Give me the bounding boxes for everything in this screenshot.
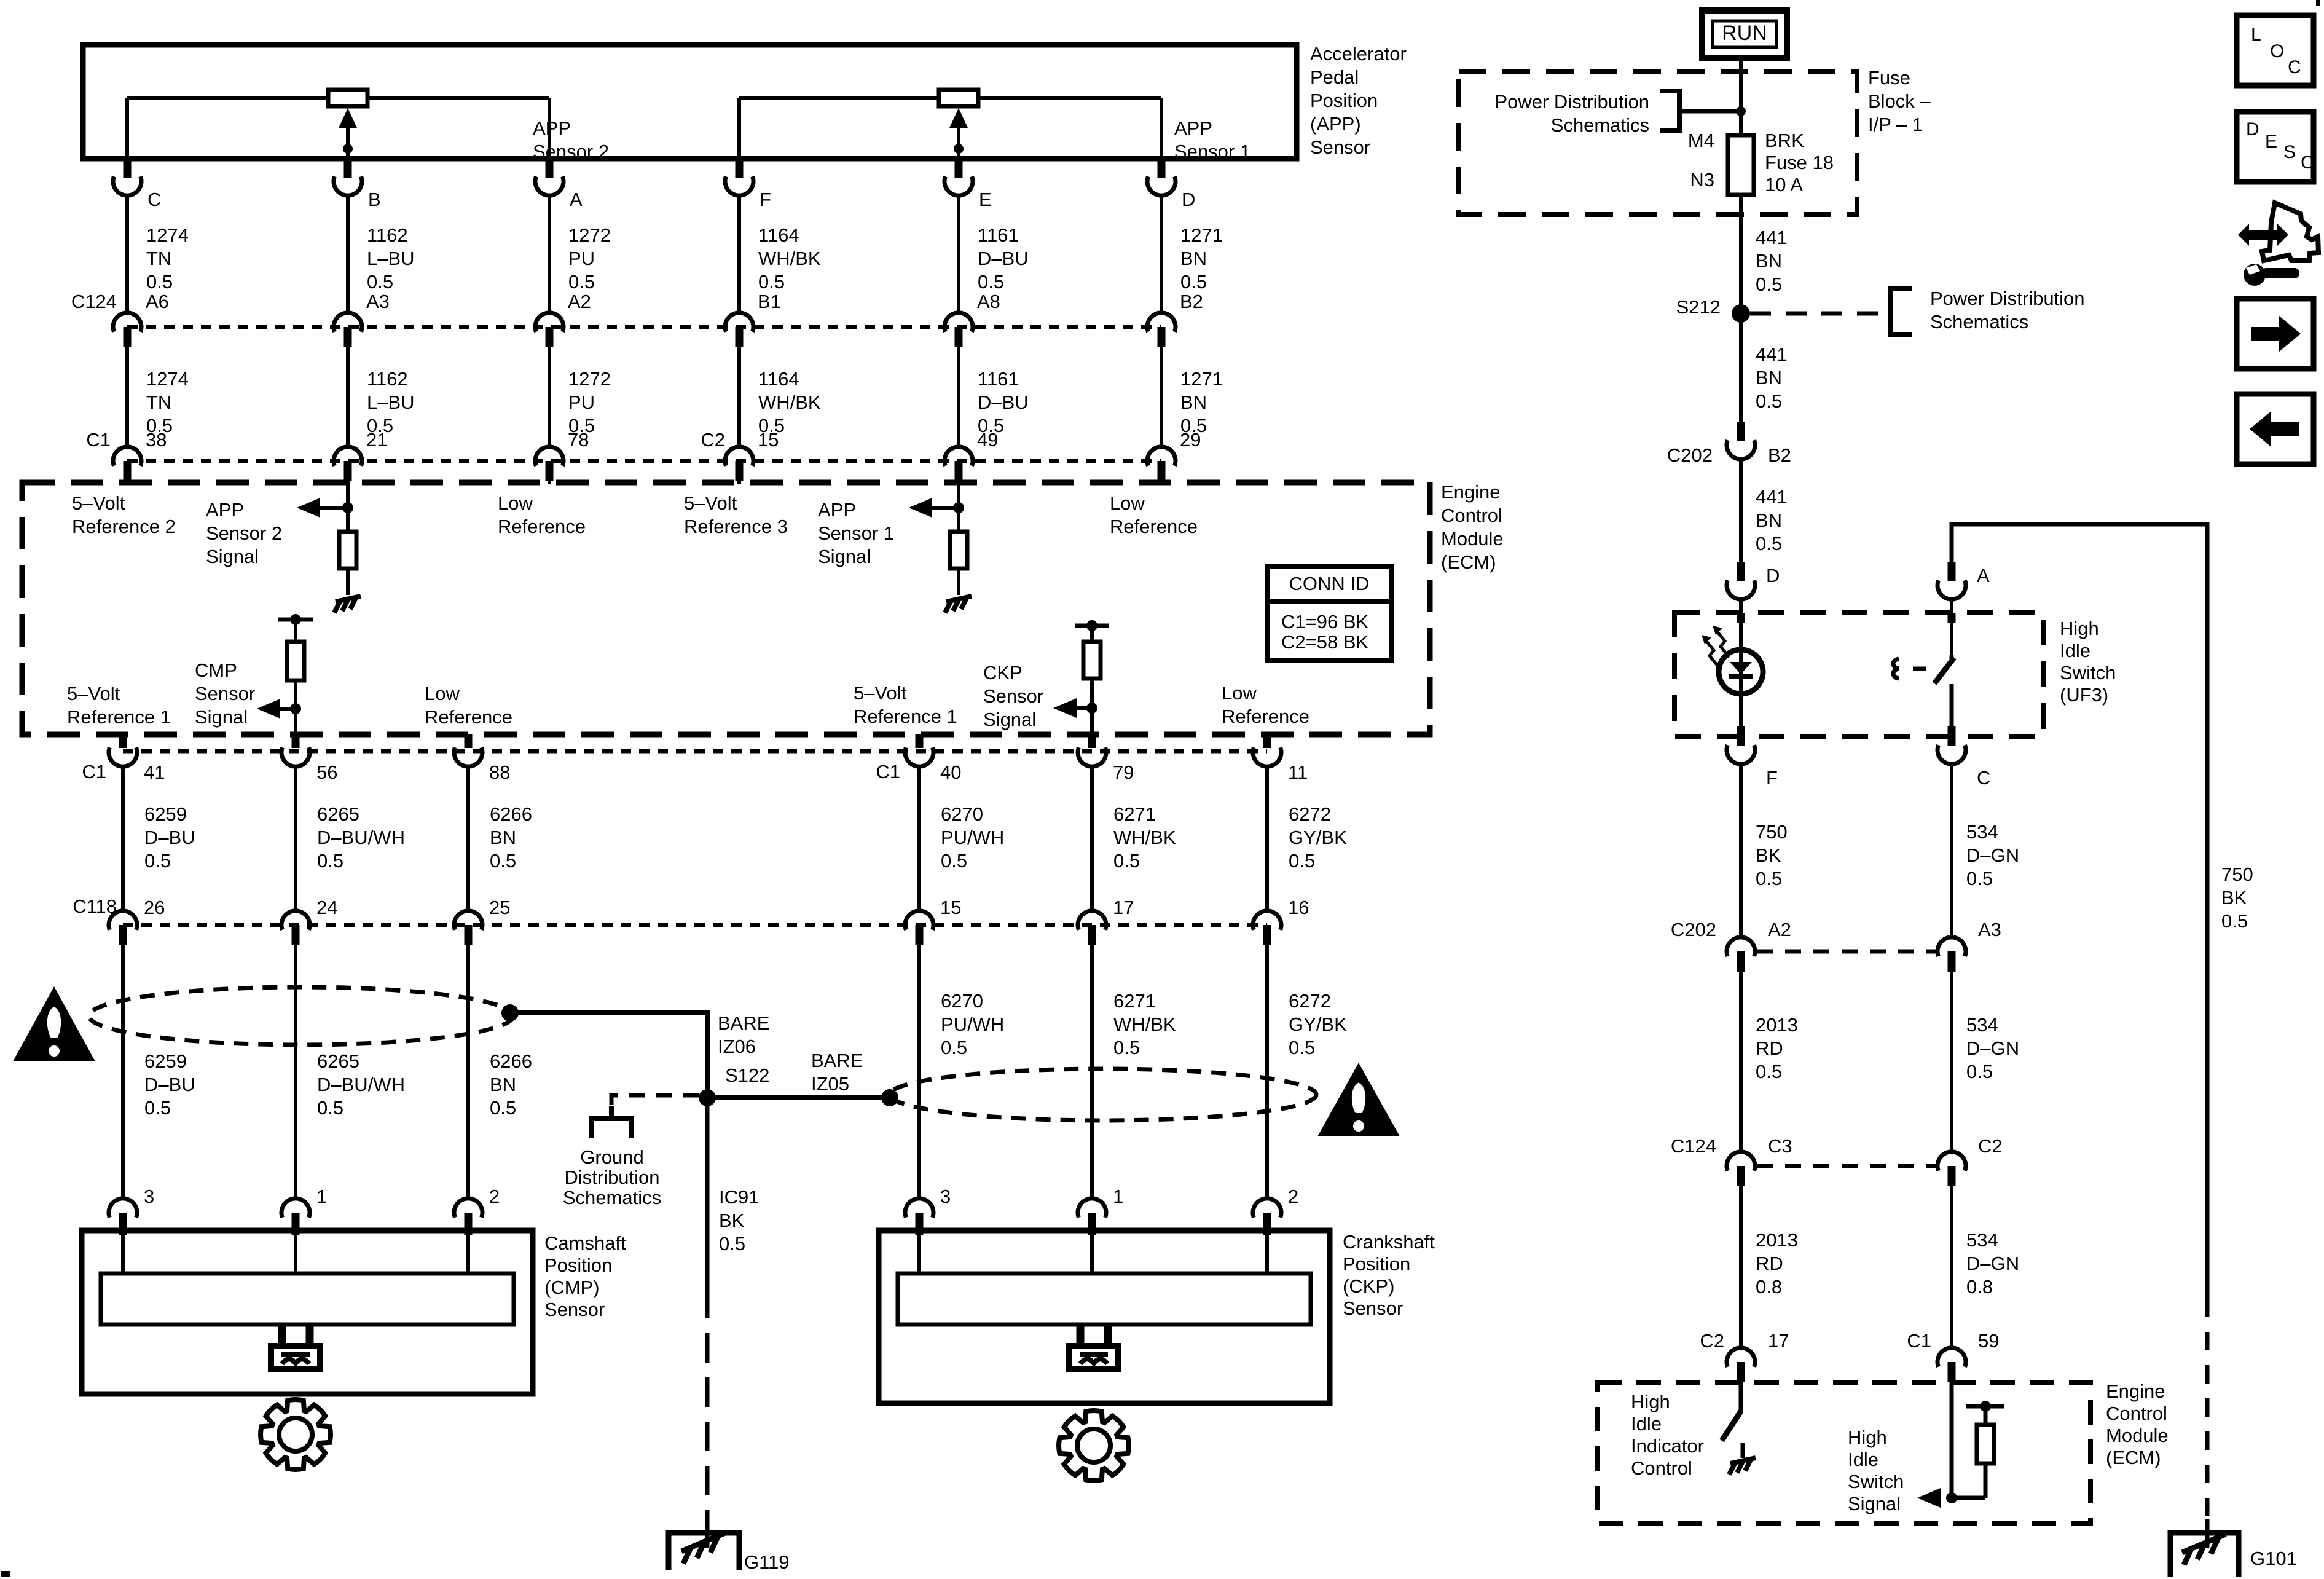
- svg-text:0.5: 0.5: [1756, 1061, 1782, 1082]
- ECM Low Reference label (CKP): [1222, 682, 1309, 727]
- svg-text:D–GN: D–GN: [1966, 1038, 2019, 1059]
- pin label 26: [144, 897, 165, 918]
- svg-text:2: 2: [489, 1186, 500, 1207]
- wire: [346, 195, 350, 313]
- connector A: [1937, 562, 1966, 599]
- ECM output pin 79: [1078, 734, 1106, 766]
- CKP element leads: [919, 1235, 1267, 1274]
- svg-text:D: D: [1766, 565, 1780, 586]
- svg-text:C1: C1: [1907, 1330, 1931, 1352]
- svg-text:1272: 1272: [568, 224, 611, 246]
- wire label 6271 WH/BK: [1113, 990, 1176, 1058]
- svg-text:WH/BK: WH/BK: [758, 392, 821, 413]
- svg-text:PU/WH: PU/WH: [941, 1014, 1004, 1035]
- wire: [548, 195, 551, 313]
- ECM label (bottom): [2106, 1380, 2169, 1468]
- wire: [1090, 945, 1094, 1199]
- svg-text:6265: 6265: [317, 1050, 359, 1072]
- Fuse Block dashed box: [1459, 71, 1857, 215]
- pin label 59: [1978, 1330, 1999, 1352]
- svg-text:C1: C1: [876, 761, 900, 782]
- fuse BRK Fuse 18 10A: [1728, 111, 1754, 310]
- ground distribution dashed wire: [611, 1095, 699, 1115]
- Crankshaft Position (CKP) Sensor label: [1343, 1231, 1435, 1319]
- S212 dashed tie: [1750, 312, 1886, 316]
- wire label 6272 GY/BK: [1289, 803, 1347, 872]
- svg-text:Reference 2: Reference 2: [72, 516, 176, 537]
- pin label C: [1977, 767, 1990, 789]
- APP Sensor box label: [1310, 43, 1407, 158]
- wire: [294, 680, 297, 733]
- pin label A8: [977, 291, 1000, 312]
- svg-text:0.5: 0.5: [941, 850, 967, 872]
- CMP shield drain dot: [501, 1004, 519, 1022]
- ECM 5-Volt Reference 2 label: [72, 492, 176, 537]
- ECM pin 17: [1727, 1348, 1755, 1382]
- svg-text:(UF3): (UF3): [2060, 684, 2108, 706]
- svg-text:Control: Control: [2106, 1403, 2167, 1424]
- ECM pull-up resistor (APP2): [339, 532, 356, 569]
- svg-text:3: 3: [940, 1186, 951, 1207]
- svg-text:Power Distribution: Power Distribution: [1930, 288, 2085, 309]
- svg-text:E: E: [979, 189, 992, 210]
- svg-text:G101: G101: [2250, 1548, 2297, 1569]
- svg-text:Sensor 2: Sensor 2: [206, 522, 282, 544]
- connector C1 label: [86, 429, 111, 451]
- connector pin 38: [113, 447, 141, 481]
- svg-text:5–Volt: 5–Volt: [72, 492, 125, 514]
- wire: [125, 347, 129, 447]
- pin label A: [1977, 565, 1990, 586]
- pin label F: [1766, 767, 1778, 789]
- wire: [121, 766, 125, 911]
- svg-text:RUN: RUN: [1722, 22, 1767, 45]
- wire: [125, 195, 129, 313]
- G119 label: [744, 1551, 790, 1573]
- CMP signal arrow: [257, 699, 301, 719]
- pin label 56: [316, 762, 337, 783]
- wire: [1090, 766, 1094, 911]
- svg-text:BK: BK: [1756, 845, 1781, 866]
- LOC letters: [2251, 25, 2301, 77]
- svg-text:(ECM): (ECM): [1441, 551, 1496, 573]
- svg-text:S: S: [2283, 142, 2296, 162]
- wire: [1739, 972, 1743, 1152]
- connector C118 pin 25: [454, 911, 482, 945]
- wire: [294, 766, 297, 911]
- svg-text:BN: BN: [1180, 248, 1207, 269]
- pin label 3: [940, 1186, 951, 1207]
- svg-text:O: O: [2270, 41, 2284, 61]
- double arrow: [2238, 224, 2288, 246]
- ECM output pin 56: [281, 734, 310, 766]
- BARE IZ06 label: [718, 1012, 769, 1057]
- svg-text:0.5: 0.5: [1113, 850, 1140, 872]
- APP sensor 2 potentiometer track: [127, 98, 549, 159]
- svg-text:L–BU: L–BU: [367, 248, 415, 269]
- pin label 41: [144, 762, 165, 783]
- svg-text:L: L: [2251, 25, 2261, 45]
- svg-text:RD: RD: [1756, 1038, 1783, 1059]
- left arrow icon box: [2237, 394, 2314, 464]
- svg-text:Sensor: Sensor: [983, 685, 1043, 707]
- svg-text:0.5: 0.5: [1756, 533, 1782, 554]
- wire stub into ECM: [548, 481, 551, 484]
- ground G101: [2170, 1519, 2239, 1577]
- svg-text:21: 21: [366, 429, 387, 451]
- svg-text:Engine: Engine: [2106, 1380, 2165, 1402]
- svg-text:0.5: 0.5: [146, 271, 173, 293]
- svg-text:A8: A8: [977, 291, 1000, 312]
- LED emission arrows: [1702, 626, 1729, 666]
- svg-text:3: 3: [144, 1186, 154, 1207]
- pin label 15: [940, 897, 961, 918]
- wire: [1950, 599, 1953, 655]
- wire label 750 BK 0.5 (right): [2221, 864, 2253, 932]
- wire: [737, 195, 741, 313]
- RUN fuse box: [1702, 10, 1787, 58]
- CMP element leads: [123, 1235, 468, 1274]
- APP sensor pin D terminal: [1147, 159, 1176, 195]
- svg-text:PU/WH: PU/WH: [941, 827, 1004, 848]
- svg-text:D–BU/WH: D–BU/WH: [317, 827, 405, 848]
- svg-text:Reference 1: Reference 1: [854, 706, 957, 727]
- connector C2 label (17): [1700, 1330, 1724, 1352]
- svg-text:RD: RD: [1756, 1253, 1783, 1274]
- power distribution bracket (S212): [1891, 289, 1912, 334]
- svg-text:1: 1: [316, 1186, 327, 1207]
- wire stub into ECM: [125, 481, 129, 484]
- wire: [917, 945, 921, 1199]
- Accelerator Pedal Position (APP) Sensor box: [83, 45, 1297, 159]
- svg-text:88: 88: [489, 762, 510, 783]
- svg-text:Schematics: Schematics: [1551, 114, 1649, 136]
- pin label B2: [1768, 444, 1791, 466]
- pin label 40: [940, 762, 961, 783]
- svg-text:15: 15: [940, 897, 961, 918]
- svg-text:534: 534: [1966, 1229, 1998, 1251]
- ECM pull-up resistor (signal): [1977, 1406, 1994, 1498]
- svg-text:1161: 1161: [978, 224, 1019, 246]
- wire: [957, 195, 960, 313]
- svg-text:2: 2: [1288, 1186, 1298, 1207]
- svg-text:41: 41: [144, 762, 165, 783]
- svg-text:Accelerator: Accelerator: [1310, 43, 1407, 65]
- svg-text:0.5: 0.5: [1966, 868, 1993, 889]
- wire: [1950, 764, 1953, 937]
- wire: [957, 569, 960, 595]
- svg-text:Module: Module: [2106, 1425, 2169, 1446]
- svg-text:A3: A3: [366, 291, 390, 312]
- pin label B1: [758, 291, 781, 312]
- svg-text:Sensor 1: Sensor 1: [818, 522, 894, 544]
- svg-text:6271: 6271: [1113, 990, 1156, 1012]
- svg-text:Sensor 1: Sensor 1: [1174, 141, 1250, 162]
- pin label 1: [1113, 1186, 1123, 1207]
- Power Distribution Schematics label (fuse): [1494, 91, 1649, 136]
- svg-text:A2: A2: [1768, 919, 1791, 940]
- wire: [1160, 347, 1163, 447]
- ECM 5-Volt Reference 3 label: [684, 492, 788, 537]
- svg-text:C: C: [1977, 767, 1990, 789]
- connector C124 pin C2: [1937, 1152, 1966, 1186]
- svg-text:26: 26: [144, 897, 165, 918]
- svg-text:A3: A3: [1978, 919, 2001, 940]
- svg-text:534: 534: [1966, 1014, 1998, 1036]
- svg-text:C124: C124: [1671, 1135, 1716, 1157]
- APP sensor pin C terminal: [113, 159, 141, 195]
- pin label 88: [489, 762, 510, 783]
- svg-text:Reference 1: Reference 1: [67, 706, 171, 728]
- svg-text:11: 11: [1288, 762, 1308, 783]
- svg-text:Pedal: Pedal: [1310, 66, 1359, 88]
- CKP Sensor Signal label: [983, 662, 1043, 730]
- svg-text:Control: Control: [1441, 505, 1502, 526]
- pin label 29: [1180, 429, 1201, 451]
- svg-text:0.5: 0.5: [1756, 274, 1782, 295]
- High Idle Switch label: [2060, 618, 2116, 706]
- svg-text:534: 534: [1966, 821, 1998, 843]
- svg-text:Reference: Reference: [425, 706, 512, 728]
- APP Sensor 2 label: [533, 117, 609, 162]
- pin label 79: [1113, 762, 1134, 783]
- svg-text:Schematics: Schematics: [563, 1187, 661, 1208]
- APP sensor pin E terminal: [944, 159, 973, 195]
- CKP sensor pin 3: [905, 1199, 933, 1235]
- box entry stub (D): [1737, 613, 1745, 623]
- CMP reluctor gear: [261, 1400, 331, 1470]
- svg-text:TN: TN: [146, 248, 171, 269]
- wire label 1162 L–BU: [367, 368, 415, 436]
- Engine Control Module (ECM) dashed box (bottom): [1597, 1382, 2090, 1523]
- svg-text:59: 59: [1978, 1330, 1999, 1352]
- ground G119: [669, 1519, 739, 1570]
- svg-text:0.5: 0.5: [317, 850, 343, 872]
- svg-text:BN: BN: [1756, 510, 1782, 531]
- svg-text:Switch: Switch: [2060, 662, 2116, 683]
- ground distribution bracket: [592, 1106, 631, 1138]
- svg-text:Reference 3: Reference 3: [684, 516, 788, 537]
- wire label 1161 D–BU: [978, 368, 1029, 436]
- high idle indicator control switch: [1722, 1382, 1743, 1458]
- connector row C118 dashed line: [123, 923, 1267, 927]
- svg-text:0.5: 0.5: [1289, 1037, 1315, 1058]
- splice S212: [1732, 304, 1750, 323]
- svg-text:0.5: 0.5: [1180, 271, 1207, 293]
- svg-text:GY/BK: GY/BK: [1289, 827, 1347, 848]
- svg-text:0.5: 0.5: [941, 1037, 967, 1058]
- svg-text:C: C: [2301, 152, 2314, 173]
- right arrow icon box: [2237, 299, 2314, 369]
- wire label 1272 PU: [568, 368, 611, 436]
- svg-text:CKP: CKP: [983, 662, 1023, 683]
- svg-text:1162: 1162: [367, 368, 408, 390]
- svg-text:6265: 6265: [317, 803, 359, 825]
- svg-text:C202: C202: [1671, 919, 1716, 940]
- svg-text:Signal: Signal: [818, 546, 871, 567]
- svg-text:6266: 6266: [490, 803, 532, 825]
- svg-text:BARE: BARE: [811, 1050, 863, 1071]
- svg-text:A2: A2: [568, 291, 591, 312]
- svg-text:Reference: Reference: [498, 516, 586, 537]
- ECM resistor (CMP): [287, 642, 304, 680]
- svg-text:5–Volt: 5–Volt: [67, 683, 120, 704]
- svg-text:APP: APP: [818, 499, 856, 521]
- svg-text:IC91: IC91: [719, 1186, 759, 1208]
- svg-text:C118: C118: [73, 896, 117, 917]
- wire label 6265 D–BU/WH: [317, 1050, 405, 1119]
- APP sensor pin F terminal: [725, 159, 753, 195]
- wire: [466, 945, 470, 1199]
- wire label 1164 WH/BK: [758, 368, 821, 436]
- svg-text:C2=58 BK: C2=58 BK: [1281, 631, 1369, 653]
- CKP shield ellipse: [890, 1069, 1316, 1120]
- svg-text:BN: BN: [490, 1074, 516, 1095]
- connector C1 label (right group): [876, 761, 900, 782]
- pin label D: [1766, 565, 1780, 586]
- Fuse Block label: [1868, 67, 1931, 135]
- svg-text:A: A: [570, 189, 583, 210]
- wire: [1950, 1186, 1953, 1348]
- pin label A2: [1768, 919, 1791, 940]
- svg-text:750: 750: [1756, 821, 1788, 843]
- High Idle Switch Signal label: [1848, 1427, 1904, 1514]
- pin label C: [147, 189, 161, 210]
- connector C124 label: [71, 291, 117, 312]
- svg-text:Camshaft: Camshaft: [544, 1232, 626, 1254]
- connector pin 49: [944, 447, 973, 481]
- svg-text:Distribution: Distribution: [564, 1167, 659, 1188]
- DESC letters: [2246, 119, 2314, 173]
- page corner mark: [1, 1571, 10, 1577]
- svg-text:Indicator: Indicator: [1631, 1435, 1704, 1457]
- wire: [1739, 694, 1743, 736]
- wire stub into ECM: [737, 481, 741, 484]
- svg-text:F: F: [760, 189, 771, 210]
- svg-text:C2: C2: [701, 429, 725, 451]
- pin label C3: [1768, 1135, 1792, 1157]
- svg-text:S212: S212: [1676, 296, 1721, 318]
- connector C118 pin 17: [1078, 911, 1106, 945]
- svg-text:24: 24: [316, 897, 337, 918]
- signal junction: [1946, 1492, 1985, 1503]
- svg-text:G119: G119: [744, 1551, 790, 1573]
- wire: [1739, 764, 1743, 937]
- svg-text:Low: Low: [425, 683, 460, 704]
- svg-text:D–BU: D–BU: [978, 248, 1029, 269]
- power distribution bracket (fuse): [1660, 91, 1679, 131]
- S212 label: [1676, 296, 1721, 318]
- ECM output pin 40: [905, 734, 933, 766]
- svg-text:56: 56: [316, 762, 337, 783]
- wire stub into ECM: [957, 481, 960, 484]
- LOC icon box: [2237, 15, 2314, 85]
- wire: [1160, 195, 1163, 313]
- svg-text:E: E: [2265, 132, 2277, 152]
- C124 row dashed tie: [1757, 1164, 1936, 1168]
- pin label B2: [1180, 291, 1203, 312]
- wire label 6270 PU/WH: [941, 803, 1004, 872]
- ECM internal ground (indicator): [1729, 1458, 1756, 1475]
- svg-text:BK: BK: [719, 1210, 745, 1231]
- APP sensor 2 signal arrow: [297, 482, 353, 532]
- svg-text:0.5: 0.5: [1966, 1061, 1993, 1082]
- svg-text:N3: N3: [1690, 169, 1714, 191]
- wire label 6266 BN: [490, 803, 532, 872]
- svg-text:Signal: Signal: [983, 709, 1036, 730]
- svg-text:B2: B2: [1180, 291, 1203, 312]
- svg-text:BN: BN: [1180, 392, 1207, 413]
- pin label F: [760, 189, 771, 210]
- connector C124 pin A3: [334, 313, 362, 347]
- svg-text:79: 79: [1113, 762, 1134, 783]
- svg-text:6259: 6259: [144, 803, 187, 825]
- wire: [346, 347, 350, 447]
- CMP pickup connector: [271, 1323, 320, 1369]
- ECM internal ground (APP1): [945, 596, 972, 613]
- APP sensor 1 signal arrow: [909, 482, 964, 532]
- svg-text:10 A: 10 A: [1765, 174, 1803, 195]
- connector pin 15: [725, 447, 753, 481]
- svg-text:BK: BK: [2221, 887, 2247, 908]
- svg-text:Signal: Signal: [195, 706, 248, 728]
- svg-text:L–BU: L–BU: [367, 392, 415, 413]
- wire stub into ECM: [346, 481, 350, 484]
- svg-text:Position: Position: [1310, 90, 1378, 111]
- svg-text:WH/BK: WH/BK: [1113, 827, 1176, 848]
- svg-text:Idle: Idle: [2060, 640, 2090, 661]
- G101 label: [2250, 1548, 2297, 1569]
- svg-text:15: 15: [758, 429, 779, 451]
- connector C202 pin A2: [1727, 937, 1755, 972]
- APP sensor 2 wiper arrow: [339, 108, 357, 159]
- wire: [1739, 1186, 1743, 1348]
- wire: [121, 945, 125, 1199]
- connector pin 21: [334, 447, 362, 481]
- wire label 1271 BN: [1180, 224, 1223, 293]
- warning triangle (right): [1317, 1063, 1400, 1136]
- wire: [1739, 58, 1743, 111]
- DESC icon box: [2237, 112, 2314, 182]
- svg-text:6266: 6266: [490, 1050, 532, 1072]
- wire label 441 BN 0.5 (a): [1756, 227, 1788, 295]
- CKP signal arrow: [1053, 698, 1097, 718]
- svg-text:D–GN: D–GN: [1966, 845, 2019, 866]
- connector row C124 dashed line: [127, 325, 1161, 329]
- box exit stub (F): [1737, 726, 1745, 736]
- svg-text:WH/BK: WH/BK: [758, 248, 821, 269]
- warning triangle (left): [13, 986, 95, 1061]
- wire label 441 BN 0.5 (c): [1756, 486, 1788, 554]
- connector C202 pin A3: [1937, 937, 1966, 972]
- svg-text:Block –: Block –: [1868, 90, 1931, 112]
- ECM output pin 41: [109, 734, 137, 766]
- pin label E: [979, 189, 992, 210]
- ECM output pin 88: [454, 734, 482, 766]
- svg-text:0.5: 0.5: [490, 850, 516, 872]
- svg-text:441: 441: [1756, 227, 1788, 248]
- svg-text:Fuse: Fuse: [1868, 67, 1910, 89]
- svg-text:2013: 2013: [1756, 1229, 1798, 1251]
- wire: [957, 347, 960, 447]
- svg-text:0.5: 0.5: [758, 271, 785, 293]
- CKP pickup connector: [1069, 1323, 1118, 1369]
- svg-text:1164: 1164: [758, 224, 799, 246]
- wire label 6270 PU/WH: [941, 990, 1004, 1058]
- wire label 1162 L–BU: [367, 224, 415, 293]
- pin label 2: [1288, 1186, 1298, 1207]
- svg-text:Control: Control: [1631, 1457, 1692, 1479]
